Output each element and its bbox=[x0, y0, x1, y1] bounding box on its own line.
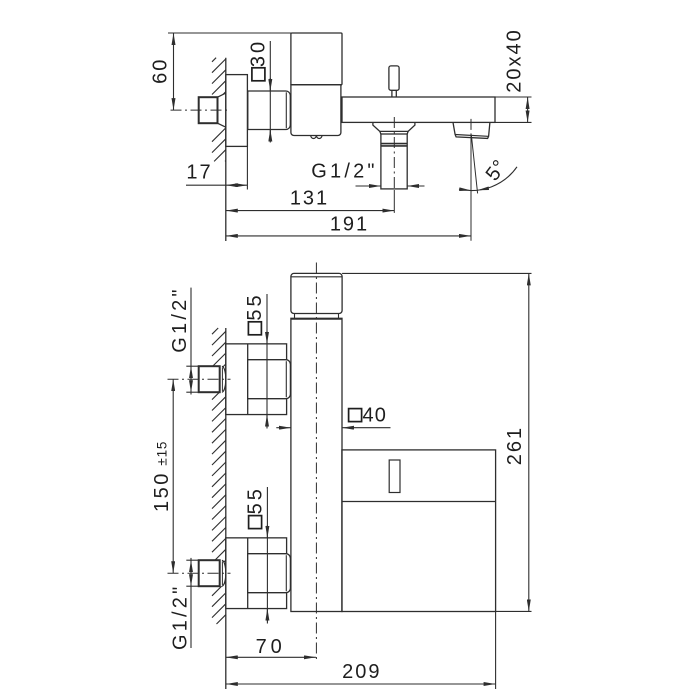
svg-text:40: 40 bbox=[362, 404, 387, 426]
svg-text:±15: ±15 bbox=[155, 441, 170, 466]
svg-text:17: 17 bbox=[186, 162, 212, 184]
svg-text:G1/2": G1/2" bbox=[311, 161, 377, 183]
svg-text:G1/2": G1/2" bbox=[170, 584, 192, 650]
svg-text:150: 150 bbox=[151, 471, 173, 512]
svg-text:131: 131 bbox=[290, 188, 329, 210]
svg-text:30: 30 bbox=[247, 39, 269, 67]
svg-text:20x40: 20x40 bbox=[504, 28, 526, 93]
svg-text:209: 209 bbox=[342, 661, 381, 683]
svg-text:55: 55 bbox=[244, 292, 266, 320]
svg-text:261: 261 bbox=[504, 426, 526, 465]
svg-text:70: 70 bbox=[256, 636, 286, 658]
svg-text:55: 55 bbox=[245, 486, 267, 514]
svg-text:191: 191 bbox=[330, 214, 369, 236]
svg-text:60: 60 bbox=[150, 58, 172, 84]
svg-text:G1/2": G1/2" bbox=[169, 286, 191, 352]
